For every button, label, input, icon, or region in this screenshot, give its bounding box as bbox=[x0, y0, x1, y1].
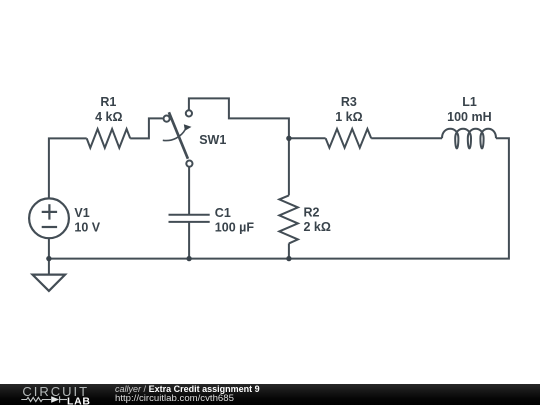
svg-text:R3: R3 bbox=[341, 95, 357, 109]
wire node A down to R2 bbox=[288, 138, 290, 195]
wire switch bottom terminal to C1 bbox=[188, 167, 190, 215]
resistor R3 bbox=[326, 129, 372, 148]
svg-text:10 V: 10 V bbox=[74, 220, 100, 234]
inductor L1 bbox=[442, 129, 496, 149]
node junction dot C1 bottom bbox=[186, 256, 191, 261]
capacitor C1 bbox=[169, 215, 210, 222]
svg-text:C1: C1 bbox=[215, 206, 231, 220]
footer bar bbox=[0, 384, 540, 405]
wire switch top terminal over to node A bbox=[189, 98, 289, 138]
voltage source V1 bbox=[29, 198, 69, 238]
node junction dot V1/ground bbox=[46, 256, 51, 261]
wire node A to R3 bbox=[289, 137, 326, 139]
wire V1 bottom to ground node bbox=[48, 238, 50, 258]
wire L1 right side down and bottom rail bbox=[49, 138, 509, 258]
svg-text:LAB: LAB bbox=[67, 395, 91, 405]
svg-text:R2: R2 bbox=[304, 206, 320, 220]
svg-text:100 µF: 100 µF bbox=[215, 221, 255, 235]
resistor R2 bbox=[279, 195, 298, 243]
resistor R1 bbox=[87, 129, 131, 148]
wire R1 to switch left terminal bbox=[130, 118, 163, 138]
ground bbox=[33, 259, 66, 291]
svg-text:R1: R1 bbox=[100, 95, 116, 109]
svg-text:SW1: SW1 bbox=[199, 133, 226, 147]
switch SW1 bbox=[163, 110, 193, 166]
CircuitLab logo bbox=[0, 384, 110, 405]
caption line 2 bbox=[115, 394, 234, 405]
node A junction dot R3/R2 bbox=[286, 136, 291, 141]
wire C1 to bottom rail bbox=[188, 222, 190, 259]
svg-text:4 kΩ: 4 kΩ bbox=[95, 110, 122, 124]
svg-text:V1: V1 bbox=[74, 206, 89, 220]
svg-text:100 mH: 100 mH bbox=[447, 110, 491, 124]
svg-text:1 kΩ: 1 kΩ bbox=[335, 110, 362, 124]
svg-text:L1: L1 bbox=[462, 95, 477, 109]
wire top-left rail from V1 to R1 bbox=[49, 138, 87, 198]
wire R2 to bottom rail bbox=[288, 243, 290, 258]
node junction dot R2 bottom bbox=[286, 256, 291, 261]
caption line 1 bbox=[115, 384, 260, 395]
wire R3 to L1 bbox=[371, 137, 442, 139]
svg-text:2 kΩ: 2 kΩ bbox=[304, 220, 331, 234]
